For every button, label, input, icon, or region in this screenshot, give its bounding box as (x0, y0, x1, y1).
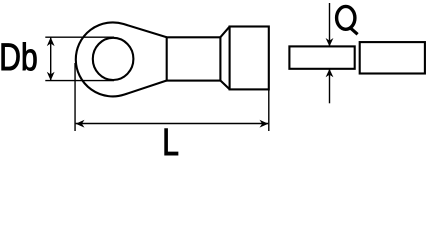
insulation flare (trapezoid sides) (220, 27, 229, 90)
dimension Db: top arrowhead (47, 37, 55, 46)
ring terminal outline (top view): ring + tangent neck (76, 22, 167, 96)
dimension L: right arrowhead (260, 120, 269, 128)
label Q (drawn: ring) (337, 6, 355, 29)
svg-text:Db: Db (0, 37, 38, 79)
dimension L: left extension line (74, 63, 76, 131)
dimension L: arrow line (76, 123, 269, 125)
dimension Q: lower line (329, 69, 331, 103)
dimension Db: arrow line (50, 37, 52, 80)
side view: tongue (thin rectangle) (289, 46, 354, 68)
dimension Db: extension lines (45, 37, 114, 80)
svg-text:L: L (162, 122, 179, 161)
dimension Q: lower arrowhead (pointing up) (326, 69, 334, 77)
side view: insulation sleeve (thick rectangle) (360, 42, 425, 73)
dimension L: right extension line (268, 89, 270, 131)
dimension Db: bottom arrowhead (47, 72, 55, 81)
dimension Q: upper arrowhead (pointing down) (326, 38, 334, 46)
dimension Q: upper line (329, 3, 331, 46)
insulation sleeve rectangle (230, 27, 269, 90)
dimension L: left arrowhead (76, 120, 85, 128)
crimp barrel rectangle (167, 37, 221, 80)
ring hole (inner circle) (93, 38, 134, 80)
label Q (drawn: tail) (350, 27, 358, 34)
